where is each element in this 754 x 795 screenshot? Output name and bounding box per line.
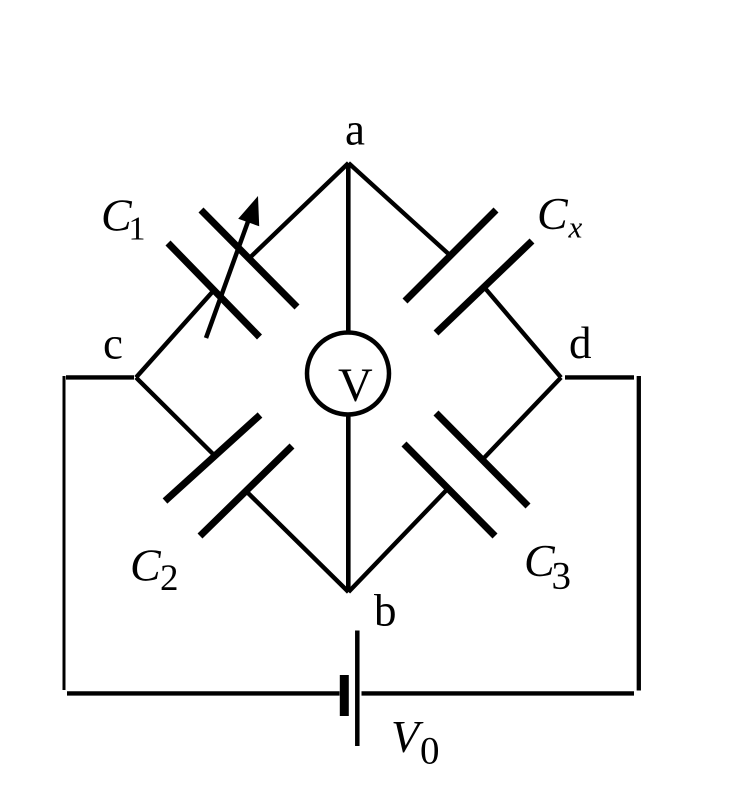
capacitor C1 plate c-side [168,243,260,337]
wire a to Cx [349,163,451,256]
capacitor Cx plate d-side [436,241,532,333]
svg-text:1: 1 [129,211,146,248]
svg-text:a: a [345,105,365,155]
svg-text:b: b [374,586,397,636]
wire C2 to b [246,491,349,592]
wire a to voltmeter [346,163,351,332]
capacitor C2 plate c-side [165,415,260,501]
battery V0 negative plate [340,675,349,716]
label V0 [391,711,440,773]
label Cx [537,188,583,245]
bottom wire right [362,691,635,695]
svg-text:c: c [103,319,123,369]
label C1 [101,190,146,248]
svg-text:2: 2 [160,558,179,599]
wire c to C2 [136,378,214,456]
right rail wire [637,376,641,691]
battery V0 positive plate [355,631,360,747]
wire d to C3 [484,378,561,459]
wire C3 to b [349,489,449,593]
svg-text:d: d [569,318,592,368]
label C2 [130,540,179,600]
svg-text:V: V [338,359,373,412]
capacitor C2 plate b-side [200,446,292,536]
svg-text:C: C [130,540,162,591]
bottom wire left [67,691,340,695]
capacitor C3 plate d-side [436,413,528,506]
wire C1 to a [249,163,349,259]
label C3 [524,535,571,598]
capacitor C3 plate b-side [404,444,495,536]
svg-text:C: C [537,188,569,239]
wire Cx to d [484,287,561,378]
capacitor C1 plate a-side [201,210,297,307]
wire c to left rail [66,375,134,379]
wire d to right rail [565,375,634,379]
wire voltmeter to b [346,415,351,591]
svg-text:0: 0 [420,730,440,773]
voltmeter V circle [307,333,389,415]
C1 variable arrow [206,196,259,338]
capacitor Cx plate a-side [405,210,496,301]
left rail wire [63,376,66,690]
svg-text:x: x [568,210,583,245]
wire c to C1 [136,289,215,378]
svg-text:3: 3 [552,555,572,598]
